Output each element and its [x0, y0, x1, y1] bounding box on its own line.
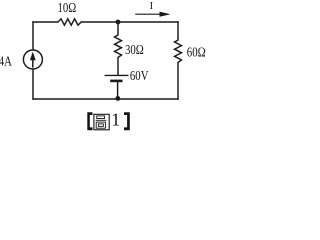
svg-text:1: 1: [111, 110, 120, 130]
svg-text:60Ω: 60Ω: [187, 44, 206, 59]
svg-text:30Ω: 30Ω: [125, 42, 144, 57]
svg-text:60V: 60V: [130, 68, 149, 83]
svg-text:10Ω: 10Ω: [58, 0, 77, 15]
svg-text:4A: 4A: [0, 53, 12, 68]
svg-text:I: I: [150, 1, 154, 12]
